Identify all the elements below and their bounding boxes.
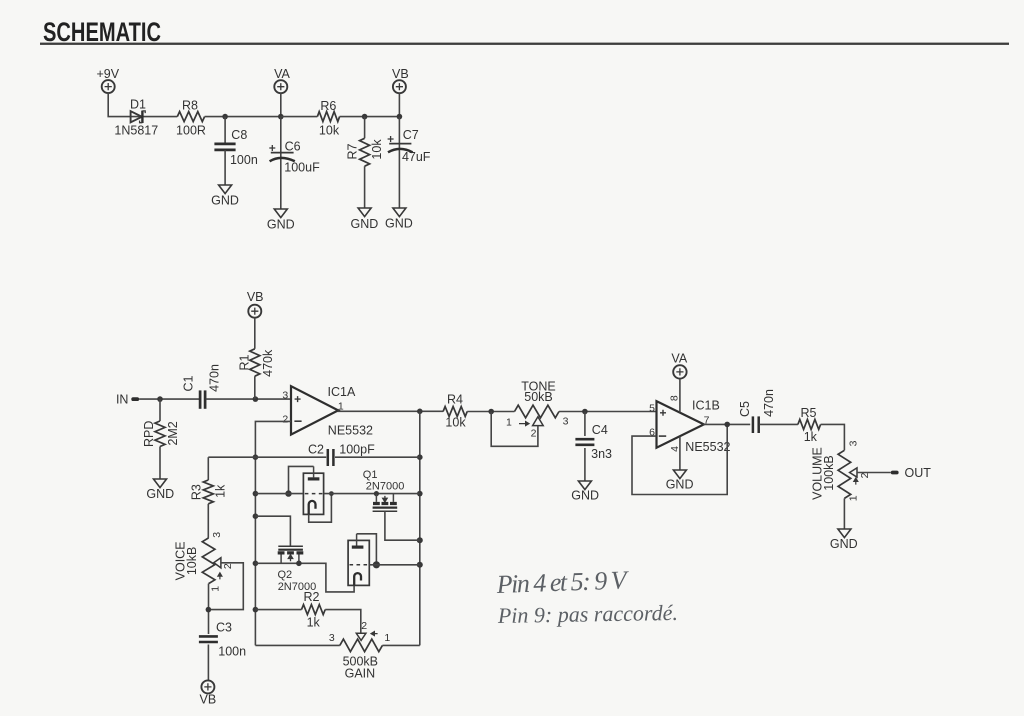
wire: [139, 398, 199, 400]
wire: [364, 117, 366, 139]
wire: [843, 498, 845, 528]
label 100n: [230, 153, 258, 167]
junction: [417, 409, 423, 415]
label 10k: [370, 139, 384, 160]
wire: [224, 150, 226, 185]
label TONE: [521, 380, 556, 394]
wire: [208, 456, 326, 458]
diode D1: [131, 111, 146, 123]
wire: [255, 493, 303, 495]
label 500kB: [343, 655, 378, 669]
label 100n: [218, 644, 246, 658]
pin 1: [384, 632, 390, 644]
junction: [253, 491, 259, 497]
socket symbol (upper): [303, 466, 323, 514]
junction: [253, 396, 259, 402]
capacitor C4: [575, 439, 594, 445]
wire right bus: [419, 411, 421, 645]
label R8: [182, 99, 198, 113]
svg-text:C6: C6: [285, 139, 301, 153]
label 100pF: [339, 443, 375, 457]
label 100uF: [284, 161, 320, 175]
svg-text:1k: 1k: [307, 615, 321, 629]
wire: [679, 437, 681, 470]
wire: [255, 609, 301, 611]
pin 6: [649, 426, 655, 438]
svg-text:GND: GND: [385, 216, 413, 230]
label C8: [231, 128, 247, 142]
title text SCHEMATIC: [43, 17, 161, 47]
svg-text:1: 1: [506, 416, 512, 428]
svg-text:2: 2: [859, 472, 871, 478]
pin 2: [859, 472, 871, 478]
svg-text:100kB: 100kB: [822, 455, 836, 490]
svg-text:10k: 10k: [319, 124, 340, 138]
svg-text:2N7000: 2N7000: [366, 481, 405, 493]
svg-text:VB: VB: [247, 290, 264, 304]
ground: [351, 208, 379, 231]
junction: [417, 491, 423, 497]
resistor R6: [317, 112, 339, 122]
wire: [159, 399, 161, 421]
svg-text:2M2: 2M2: [166, 421, 180, 445]
node IN port: [116, 393, 139, 407]
wire: [255, 516, 290, 546]
svg-text:GND: GND: [830, 537, 858, 551]
svg-text:R1: R1: [238, 354, 252, 370]
svg-text:2: 2: [282, 413, 288, 425]
wire: [369, 564, 420, 566]
junction: [374, 491, 379, 496]
pin 8: [669, 395, 681, 401]
wire: [398, 117, 400, 208]
label C4: [592, 423, 608, 437]
ground: [267, 209, 295, 232]
ground: [385, 208, 413, 230]
svg-text:3: 3: [282, 390, 288, 402]
label 1N5817: [114, 124, 158, 138]
label R2: [304, 590, 320, 604]
svg-text:C7: C7: [403, 128, 419, 142]
label R5: [801, 406, 817, 420]
pin 1: [338, 400, 344, 412]
svg-text:1k: 1k: [804, 430, 818, 444]
ground: [211, 185, 239, 208]
ground: [666, 470, 694, 491]
svg-text:C5: C5: [738, 401, 752, 417]
label C6: [285, 139, 301, 153]
junction: [253, 454, 259, 460]
svg-text:2: 2: [531, 428, 537, 440]
label 1k: [804, 430, 818, 444]
node VB terminal: [247, 290, 264, 318]
wire: [821, 424, 845, 450]
svg-text:Q1: Q1: [363, 469, 378, 481]
label 50kB: [524, 390, 553, 404]
wire: [207, 504, 209, 538]
svg-text:RPD: RPD: [142, 421, 156, 447]
ground: [571, 481, 599, 502]
junction: [206, 607, 212, 613]
resistor R2: [302, 605, 326, 615]
junction: [157, 396, 163, 402]
label R7: [345, 143, 359, 159]
svg-text:IC1A: IC1A: [328, 385, 356, 399]
potentiometer TONE: [515, 405, 560, 418]
junction: [488, 409, 494, 415]
label C5: [738, 401, 752, 417]
label RPD: [142, 421, 156, 447]
svg-text:3: 3: [847, 440, 859, 446]
junction: [296, 561, 302, 567]
pin 3: [563, 416, 569, 428]
wire feedback: [632, 424, 727, 494]
svg-text:1: 1: [847, 495, 859, 501]
svg-text:10k: 10k: [370, 139, 384, 160]
junction: [362, 114, 368, 120]
resistor R3: [203, 457, 213, 504]
svg-text:470n: 470n: [762, 389, 776, 417]
svg-text:VB: VB: [200, 693, 217, 707]
junction: [397, 114, 403, 120]
op-amp IC1B: [657, 401, 704, 448]
ground: [146, 479, 174, 501]
node +9V terminal: [97, 67, 120, 93]
wire: [254, 318, 256, 349]
svg-text:3n3: 3n3: [591, 447, 612, 461]
junction: [278, 114, 284, 120]
op-amp IC1A: [291, 386, 338, 434]
wire: [289, 466, 314, 493]
svg-text:NE5532: NE5532: [328, 424, 373, 438]
wire: [385, 511, 420, 540]
junction: [724, 422, 730, 428]
capacitor C8: [214, 144, 235, 150]
label NE5532: [328, 424, 373, 438]
label GAIN: [345, 666, 376, 680]
resistor R8: [177, 112, 204, 122]
pin 2: [222, 563, 234, 569]
wire: [280, 117, 282, 209]
label 47uF: [402, 150, 431, 164]
label 100kB: [822, 455, 836, 490]
svg-text:Pin 4 et 5: 9 V: Pin 4 et 5: 9 V: [495, 565, 630, 599]
svg-text:D1: D1: [130, 98, 146, 112]
label 10k: [445, 415, 466, 429]
svg-text:2: 2: [361, 620, 367, 632]
svg-text:100uF: 100uF: [284, 161, 320, 175]
svg-text:5: 5: [649, 402, 655, 414]
svg-text:100n: 100n: [218, 644, 246, 658]
pin 5: [649, 402, 655, 414]
label Q1: [363, 469, 378, 481]
label VOLUME: [810, 447, 824, 500]
wire: [224, 117, 226, 143]
capacitor C2: [328, 449, 334, 466]
svg-text:R5: R5: [801, 406, 817, 420]
svg-text:8: 8: [669, 395, 681, 401]
junction: [222, 114, 228, 120]
node VB terminal: [392, 67, 409, 93]
svg-text:GND: GND: [351, 217, 379, 231]
svg-text:100R: 100R: [176, 124, 206, 138]
junction: [373, 561, 380, 568]
wire wiper loop: [491, 412, 538, 447]
pin 3: [211, 532, 223, 538]
svg-text:GND: GND: [666, 477, 694, 491]
label C1: [182, 375, 196, 391]
wire bottom: [382, 644, 419, 646]
wire: [159, 447, 161, 479]
label 100R: [176, 124, 206, 138]
label 2N7000: [278, 581, 317, 593]
capacitor C7: [388, 136, 413, 152]
svg-text:C3: C3: [216, 621, 232, 635]
pin 3: [282, 390, 288, 402]
svg-text:R2: R2: [304, 590, 320, 604]
svg-text:Q2: Q2: [278, 569, 293, 581]
svg-text:Pin 9: pas raccordé.: Pin 9: pas raccordé.: [497, 600, 678, 628]
svg-text:50kB: 50kB: [524, 390, 553, 404]
svg-text:GND: GND: [211, 194, 239, 208]
label R3: [189, 484, 203, 500]
svg-text:R8: R8: [182, 99, 198, 113]
pin 2: [361, 620, 367, 632]
junction: [417, 454, 423, 460]
node OUT port: [891, 466, 931, 480]
handwritten note line 1: [495, 565, 630, 599]
pin 1: [210, 586, 222, 592]
capacitor C3: [199, 636, 218, 642]
wire: [364, 166, 366, 208]
junction: [253, 513, 259, 519]
label 2M2: [166, 421, 180, 445]
wire: [679, 379, 681, 413]
svg-text:VA: VA: [274, 67, 290, 81]
wire: [207, 645, 209, 681]
label 3n3: [591, 447, 612, 461]
label 10k: [319, 124, 340, 138]
socket symbol (lower): [348, 534, 369, 586]
label NE5532: [685, 440, 730, 454]
svg-text:VB: VB: [392, 67, 409, 81]
svg-text:IC1B: IC1B: [692, 399, 720, 413]
label IC1B: [692, 399, 720, 413]
pin 2: [531, 428, 537, 440]
ground: [830, 529, 858, 551]
svg-text:R4: R4: [447, 392, 463, 406]
svg-text:+9V: +9V: [97, 67, 120, 81]
svg-text:1N5817: 1N5817: [114, 124, 158, 138]
svg-text:SCHEMATIC: SCHEMATIC: [43, 17, 161, 47]
label R6: [320, 99, 336, 113]
label 2N7000: [366, 481, 405, 493]
wire: [280, 93, 282, 116]
svg-text:GND: GND: [146, 487, 174, 501]
junction: [417, 537, 423, 543]
wire: [281, 116, 318, 118]
label R1: [238, 354, 252, 370]
svg-text:GAIN: GAIN: [345, 666, 376, 680]
capacitor C6: [269, 145, 295, 161]
capacitor C5: [753, 416, 759, 433]
wire: [335, 456, 420, 458]
wire: [340, 116, 400, 118]
wire: [254, 376, 256, 399]
resistor R4: [443, 407, 467, 417]
wire: [108, 93, 177, 117]
pin 4: [669, 446, 681, 452]
wire: [325, 610, 361, 633]
wire: [467, 411, 514, 413]
junction: [582, 409, 588, 415]
wire: [255, 421, 291, 457]
svg-text:1: 1: [384, 632, 390, 644]
label Q2: [278, 569, 293, 581]
pin 3: [847, 440, 859, 446]
svg-text:10kB: 10kB: [185, 547, 199, 576]
svg-text:1k: 1k: [214, 484, 228, 498]
resistor R1: [250, 349, 260, 376]
resistor R7: [360, 138, 370, 166]
resistor R5: [798, 419, 821, 429]
label 470n: [208, 364, 222, 392]
svg-text:GND: GND: [571, 488, 599, 502]
node VA terminal: [274, 67, 290, 93]
label 470k: [261, 349, 275, 377]
label IC1A: [328, 385, 356, 399]
svg-text:10k: 10k: [445, 415, 466, 429]
handwritten note line 2: [497, 600, 678, 628]
wire: [584, 412, 586, 437]
pot wiper: [850, 468, 858, 485]
svg-text:C8: C8: [231, 128, 247, 142]
potentiometer VOLUME: [838, 450, 851, 498]
wire: [324, 493, 420, 495]
svg-text:C4: C4: [592, 423, 608, 437]
svg-text:C2: C2: [308, 442, 324, 456]
wire: [309, 494, 332, 523]
resistor RPD: [155, 421, 165, 447]
capacitor C1: [200, 390, 205, 408]
svg-text:R7: R7: [345, 143, 359, 159]
label 10kB: [185, 547, 199, 576]
junction: [253, 561, 259, 567]
pin 3: [329, 632, 335, 644]
title rule: [40, 43, 1009, 45]
svg-text:VA: VA: [671, 351, 687, 365]
junction: [417, 562, 423, 568]
label 470n: [762, 389, 776, 417]
potentiometer VOICE: [202, 538, 215, 584]
svg-text:3: 3: [211, 532, 223, 538]
label VOICE: [174, 541, 188, 580]
svg-text:47uF: 47uF: [402, 150, 431, 164]
wire bottom: [255, 644, 339, 646]
wire: [338, 410, 444, 412]
svg-text:R3: R3: [189, 484, 203, 500]
wire: [559, 411, 657, 413]
transistor Q2: [278, 546, 304, 563]
pin 1: [847, 495, 859, 501]
wire: [759, 423, 798, 425]
svg-text:R6: R6: [320, 99, 336, 113]
wire: [703, 423, 750, 425]
label C3: [216, 621, 232, 635]
junction: [285, 490, 291, 496]
node VB terminal: [200, 680, 217, 706]
wire: [584, 448, 586, 481]
wire: [208, 584, 210, 634]
svg-text:470n: 470n: [208, 364, 222, 392]
wire: [857, 472, 891, 474]
label D1: [130, 98, 146, 112]
label 1k: [214, 484, 228, 498]
wire: [205, 116, 281, 118]
pot wiper: [356, 632, 377, 641]
transistor Q1: [373, 494, 398, 512]
svg-text:OUT: OUT: [905, 466, 932, 480]
svg-text:3: 3: [563, 416, 569, 428]
svg-text:IN: IN: [116, 393, 129, 407]
svg-text:100n: 100n: [230, 153, 258, 167]
wire: [206, 398, 291, 400]
svg-text:470k: 470k: [261, 349, 275, 377]
svg-text:NE5532: NE5532: [685, 440, 730, 454]
svg-text:2: 2: [222, 563, 234, 569]
junction: [329, 491, 334, 496]
pot wiper: [214, 558, 222, 580]
node VA terminal: [671, 351, 687, 378]
label 1k: [307, 615, 321, 629]
wire: [398, 93, 400, 116]
wire: [357, 534, 377, 565]
potentiometer GAIN: [340, 639, 383, 652]
pin 2: [282, 413, 288, 425]
svg-text:GND: GND: [267, 218, 295, 232]
wire wiper loop: [208, 563, 243, 610]
wire left bus: [254, 457, 256, 645]
label C2: [308, 442, 324, 456]
pot wiper: [519, 417, 543, 426]
pin 7: [704, 415, 710, 427]
svg-text:3: 3: [329, 632, 335, 644]
svg-text:1: 1: [210, 586, 222, 592]
svg-text:C1: C1: [182, 375, 196, 391]
junction: [253, 607, 259, 613]
pin 1: [506, 416, 512, 428]
svg-text:100pF: 100pF: [339, 443, 375, 457]
label R4: [447, 392, 463, 406]
wire: [255, 563, 354, 592]
label C7: [403, 128, 419, 142]
